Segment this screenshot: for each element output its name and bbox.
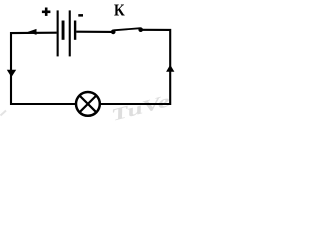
battery long plate 1 (+) xyxy=(57,10,59,56)
battery short plate 1 xyxy=(62,21,65,40)
watermark fragment bottom-left xyxy=(1,111,7,116)
svg-text:K: K xyxy=(114,1,125,20)
lamp L (circle with X) xyxy=(76,92,100,116)
switch K: lever xyxy=(114,28,141,30)
battery long plate 2 xyxy=(69,10,71,56)
wire main loop (left, bottom, right) xyxy=(11,30,170,104)
switch K: contact dot 2 xyxy=(138,27,143,32)
current arrow up on right wire xyxy=(166,65,174,72)
label - (battery negative) xyxy=(78,14,83,17)
wire battery to switch xyxy=(76,31,112,33)
switch K: contact dot 1 xyxy=(111,30,116,35)
current arrow left-pointing on top wire xyxy=(28,29,37,35)
current arrow down on left wire xyxy=(7,70,16,77)
battery short plate 2 (-) xyxy=(74,21,76,40)
label + (battery positive) xyxy=(42,8,51,16)
